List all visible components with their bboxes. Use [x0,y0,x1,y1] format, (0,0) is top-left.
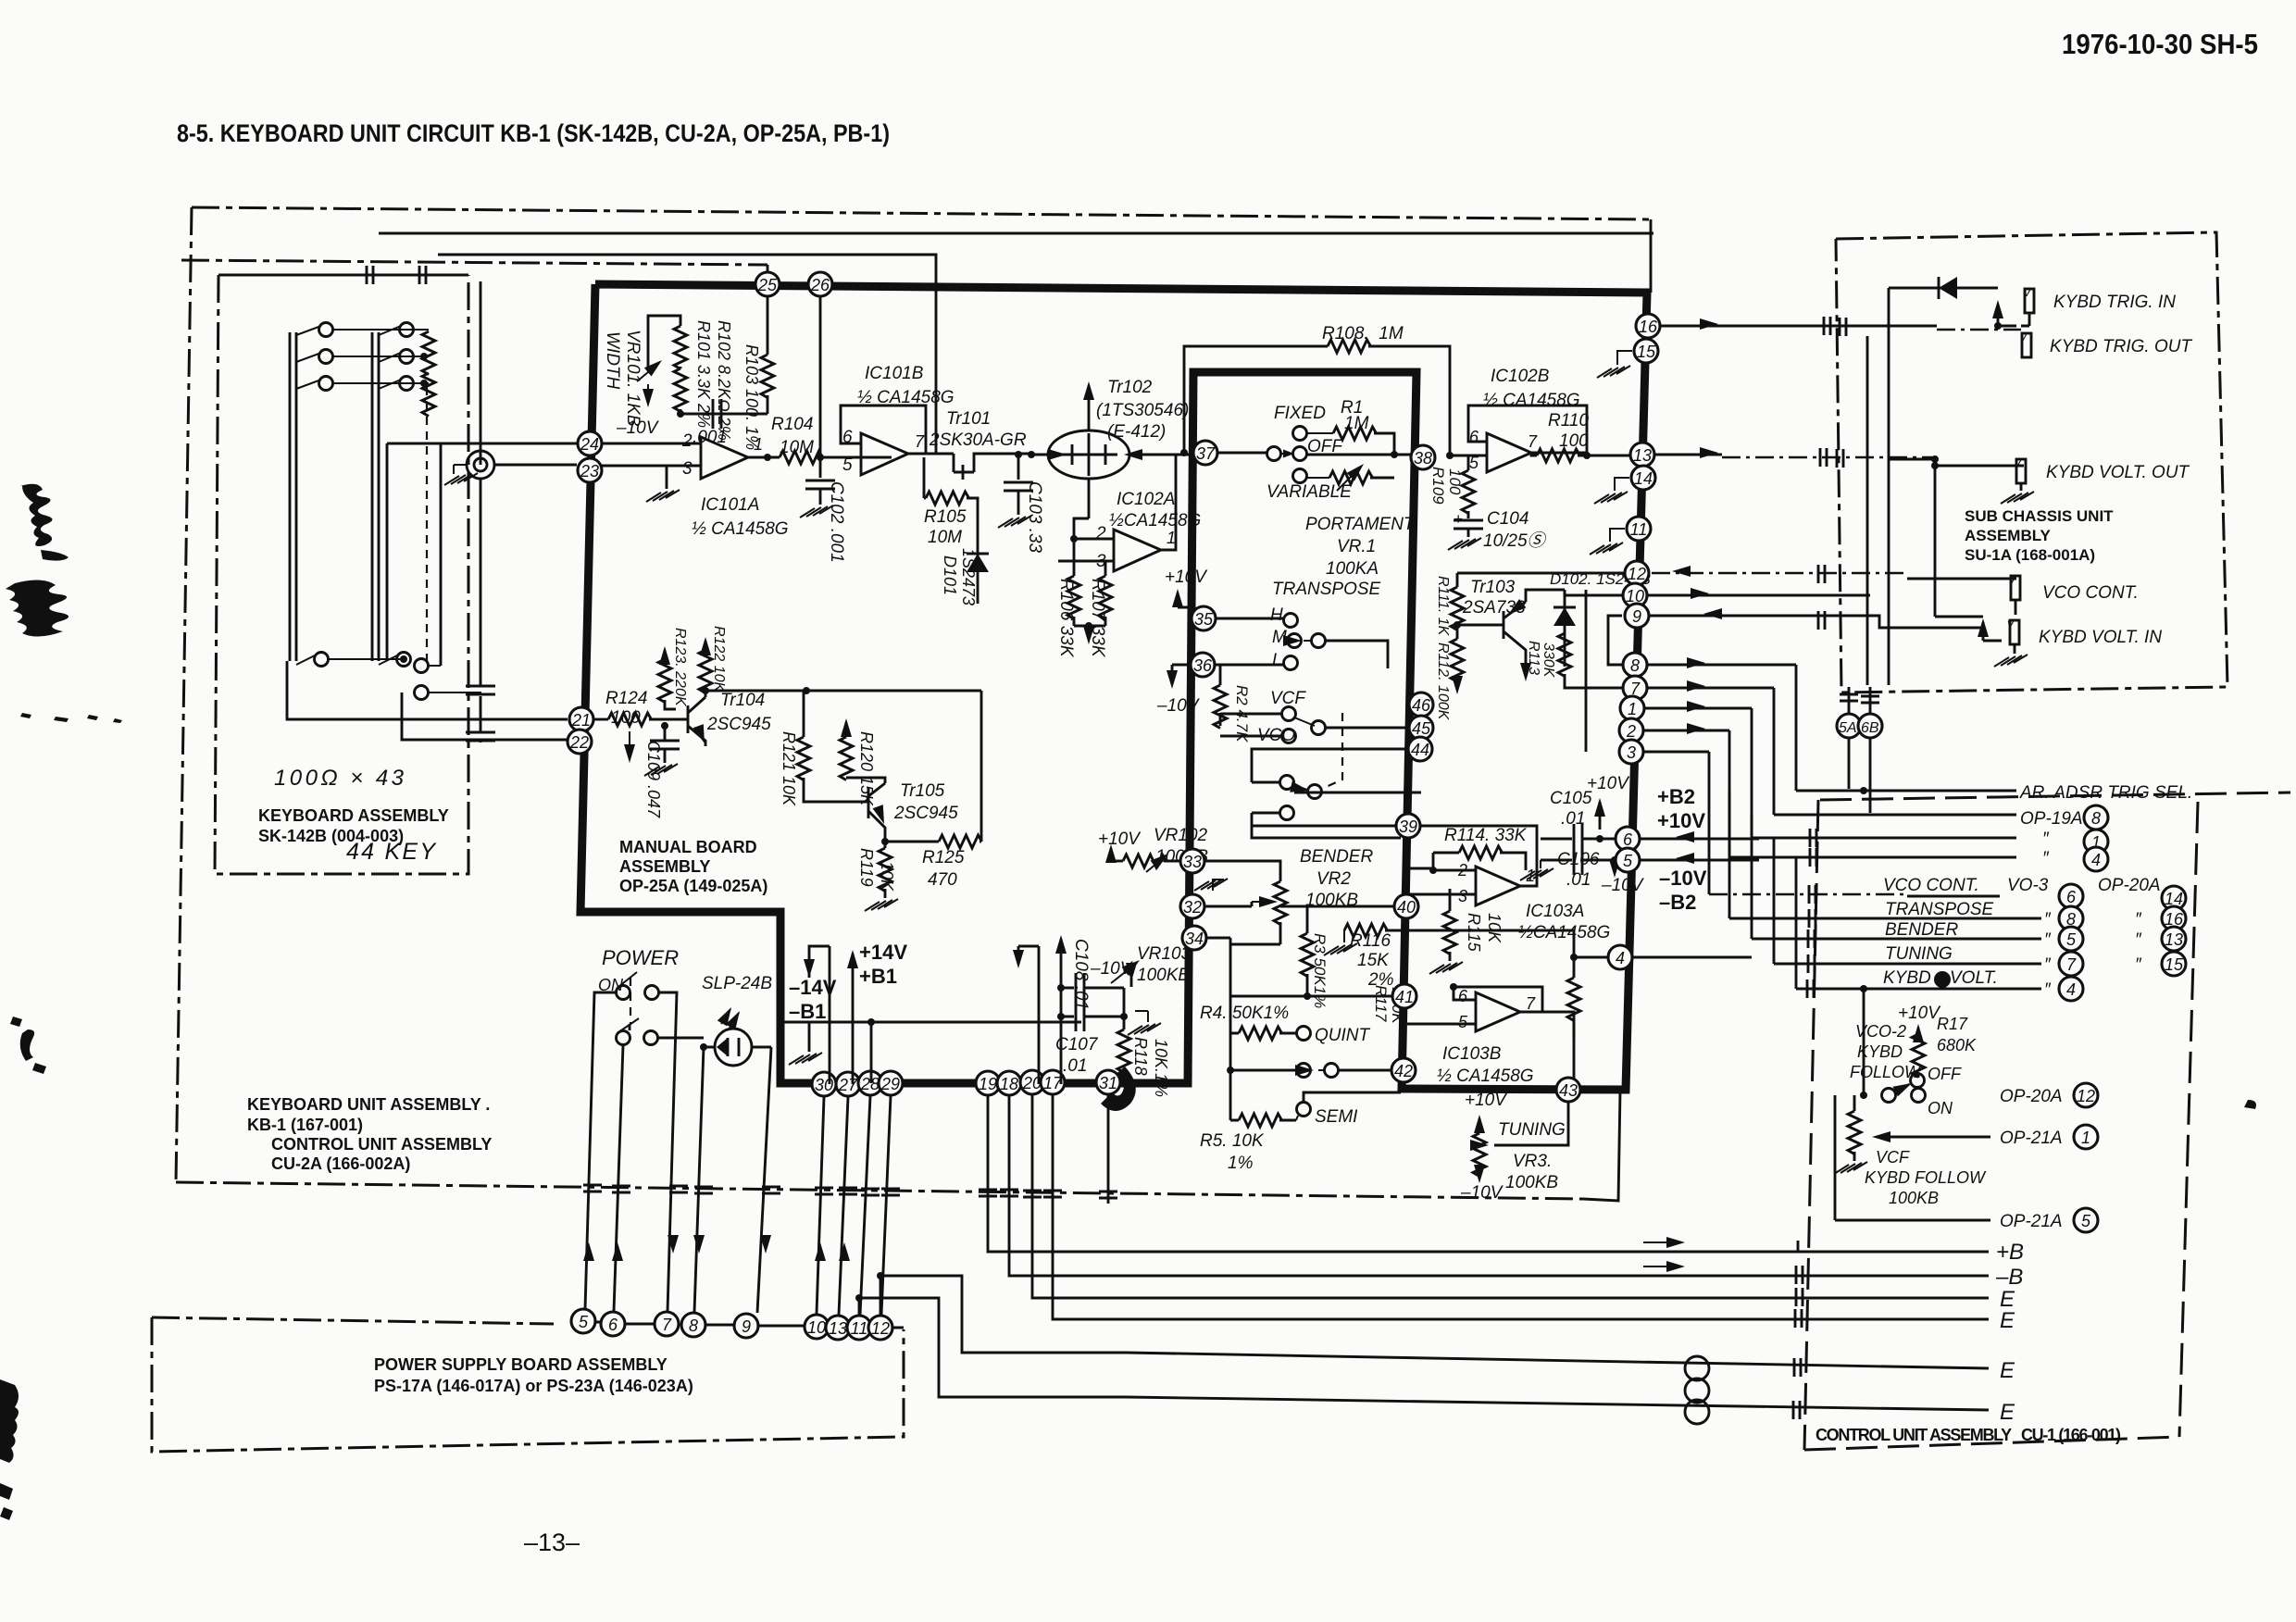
switch contacts [617,986,630,1000]
svg-text:14: 14 [1634,469,1653,488]
svg-text:SUB CHASSIS UNIT: SUB CHASSIS UNIT [1965,507,2114,525]
wire [428,666,481,692]
svg-text:7: 7 [2066,955,2077,974]
svg-text:15K: 15K [1357,951,1390,970]
wire [1031,454,1193,456]
wire [829,946,831,1084]
pin 5 [571,1309,595,1333]
svg-text:R118: R118 [1131,1037,1150,1076]
OP-21A 5 row [1835,1219,1990,1222]
key switch 6 [379,380,401,389]
svg-text:VOLT.: VOLT. [1950,968,1998,988]
wire [1060,988,1063,1017]
wire [977,589,980,604]
wire [1983,640,2002,643]
ground at R118 top right [1147,1011,1149,1022]
svg-text:45: 45 [1412,719,1431,738]
svg-text:TRANSPOSE: TRANSPOSE [1885,900,1994,919]
junction [1611,856,1618,864]
circled terminal [467,451,494,479]
wire [1088,626,1091,639]
wire [657,1037,704,1040]
svg-text:1976-10-30 SH-5: 1976-10-30 SH-5 [2062,28,2258,60]
wire [1126,1397,1989,1410]
wire 4 row [1607,956,1752,959]
resistor [1274,881,1287,925]
wire [1456,680,1459,689]
VR101 pot arrow [637,363,659,381]
junction [867,1018,875,1026]
resistor [1239,1114,1282,1127]
svg-text:½CA1458G: ½CA1458G [1518,923,1610,942]
svg-text:5: 5 [1623,852,1633,870]
svg-text:R124: R124 [605,689,647,708]
junction [1931,455,1939,463]
vertical kb line [480,281,482,465]
svg-text:Tr103: Tr103 [1470,578,1516,597]
keyboard bus bar 2 [372,332,379,661]
bottom key switch 2 [379,655,397,665]
svg-text:39: 39 [1399,817,1417,836]
svg-text:–10V: –10V [1156,696,1201,716]
resistor chain on bus 2 [422,331,435,375]
power supply board dash-dot box [152,1317,554,1324]
rails [1126,1251,1989,1254]
wire [1410,826,1537,886]
capacitor [1076,1002,1084,1031]
svg-text:28: 28 [860,1075,880,1093]
svg-text:8: 8 [2091,809,2101,828]
svg-text:31: 31 [1099,1074,1117,1092]
junction [1454,621,1461,629]
wire [820,456,892,459]
pin 27 [836,1072,860,1096]
wire [1614,860,1616,872]
pin 13 [826,1316,850,1340]
pin 11 [847,1316,871,1340]
arrow [659,646,670,665]
svg-text:7: 7 [662,1316,672,1334]
wire [688,697,705,746]
svg-text:10/25Ⓢ: 10/25Ⓢ [1483,530,1548,551]
svg-text:3: 3 [682,459,693,479]
arrows on risers [583,1242,594,1261]
svg-text:6B: 6B [1861,720,1879,736]
wire [2020,483,2023,491]
pin 20 [1020,1070,1044,1094]
wire [1017,455,1020,480]
switch contact [1293,469,1307,483]
svg-text:5: 5 [2066,930,2077,949]
wire [1073,539,1076,626]
Tr102 bottom stub to IC102A [1088,479,1091,518]
wire [705,691,707,697]
svg-text:BENDER: BENDER [1300,847,1373,867]
wire 9 row [1650,616,1983,628]
junction [855,1294,863,1302]
key switch 3 [296,380,321,389]
pin 5 [2059,927,2083,951]
wire [1343,930,1345,942]
connector crossing marks [1824,317,1830,335]
junction [1931,462,1939,469]
svg-text:13: 13 [2165,930,2183,949]
svg-text:22: 22 [569,733,589,752]
svg-text:1: 1 [1628,700,1637,718]
svg-text:R114. 33K: R114. 33K [1444,826,1528,845]
svg-text:–10V: –10V [1601,876,1645,895]
svg-text:VCF: VCF [1270,689,1306,708]
svg-text:SEMI: SEMI [1315,1107,1358,1127]
arrow [804,959,815,978]
wire [1074,561,1105,626]
svg-text:H: H [1270,605,1283,625]
arrow [1687,723,1705,734]
svg-text:ON: ON [1928,1099,1953,1117]
svg-text:VR102: VR102 [1154,826,1208,845]
pin 33 [1180,849,1204,873]
resistor [1117,1029,1130,1073]
pin 1 [2084,830,2108,854]
switch contact [1297,1027,1311,1041]
op-amp IC102A [1114,530,1161,571]
svg-text:KYBD: KYBD [1857,1042,1903,1061]
svg-text:ASSEMBLY: ASSEMBLY [1965,527,2052,544]
arrow [1520,663,1531,681]
wire [694,1047,771,1313]
svg-text:AR. ADSR TRIG SEL.: AR. ADSR TRIG SEL. [2019,783,2192,803]
pin 5 [1616,848,1640,872]
resistor [926,492,969,505]
wire 39 row [1252,825,1401,828]
svg-text:330K: 330K [1541,643,1556,679]
wire [1206,618,1283,620]
pin 28 [858,1071,882,1095]
capacitor [650,741,680,749]
wire terminal to pins [494,464,577,467]
wire 16 row [1653,325,1937,328]
op-amp IC101B [861,433,908,475]
pin 32 [1180,894,1204,918]
arrow [1687,701,1705,712]
svg-text:OP-19A: OP-19A [2020,809,2083,829]
wire [1252,901,1274,903]
wire [1126,1353,1989,1368]
wire [2021,313,2029,326]
wire [1894,1084,1909,1092]
wire [1325,641,1388,668]
wire [1192,861,1280,881]
svg-text:–10V: –10V [1460,1183,1504,1203]
op-amp IC103B [1476,992,1520,1031]
junction [1180,449,1188,456]
wire [1318,1069,1324,1071]
wire [809,946,830,978]
pin 4 [1608,945,1632,969]
svg-text:1S2473: 1S2473 [959,548,978,605]
resistor [1462,470,1475,514]
wire node vertical [1585,590,1588,752]
wire [846,778,885,842]
pin 13 [1630,443,1654,467]
arrow [693,724,710,745]
svg-text:½ CA1458G: ½ CA1458G [692,519,789,539]
svg-text:6: 6 [608,1316,618,1334]
three connector bubbles [1685,1356,1709,1380]
resistor [699,650,712,693]
wire [1111,860,1123,863]
svg-text:SLP-24B: SLP-24B [702,974,772,993]
svg-text:–B1: –B1 [789,1000,826,1023]
svg-text:POWER: POWER [602,946,679,969]
resistor [840,737,853,780]
connector crossing marks [1818,611,1825,630]
wire [870,1022,873,1083]
svg-text:11: 11 [1630,520,1648,539]
junction [700,1043,707,1051]
svg-text:R103 100. 1%: R103 100. 1% [742,344,761,450]
ground at 11 [1610,529,1625,542]
pin 14 [1631,466,1655,490]
svg-text:CONTROL UNIT ASSEMBLY: CONTROL UNIT ASSEMBLY [271,1135,492,1154]
capacitor [1574,845,1582,875]
pin 15 [2162,952,2186,976]
step wire from pin 11 [859,1298,1126,1397]
wire [721,1009,739,1028]
svg-text:(1TS30546): (1TS30546) [1096,401,1189,420]
resistor [1099,576,1112,619]
wire [1252,749,1421,838]
op-amp IC102B [1487,433,1531,472]
wire [980,691,983,842]
svg-text:C108 .01: C108 .01 [1071,939,1091,1010]
quote 1 row [1752,837,2016,840]
svg-text:13: 13 [829,1319,847,1338]
pin 12 [1625,561,1649,585]
connector crossing marks [1794,1358,1801,1377]
svg-text:VCF: VCF [1876,1148,1910,1167]
svg-text:POWER SUPPLY BOARD ASSEMBLY: POWER SUPPLY BOARD ASSEMBLY [374,1355,668,1374]
wire [1449,889,1452,961]
connector crossing marks [1796,1288,1803,1306]
svg-text:37: 37 [1196,444,1216,463]
pin 29 [879,1071,903,1095]
arrow [1672,566,1691,577]
key switch 1 [296,326,321,335]
wire 8 row [1648,664,1796,667]
svg-text:100KA: 100KA [1326,559,1379,579]
resistor [1451,587,1464,630]
selector contacts middle [1297,1064,1311,1078]
pot VCF KYBD FOLLOW [1848,1111,1861,1154]
svg-text:R121 10K: R121 10K [780,731,798,806]
wire 10 [1565,590,1635,595]
diode D101 [977,518,980,589]
wire [1797,1241,1800,1252]
junction [1450,983,1457,991]
wire [1796,988,2041,991]
svg-text:5: 5 [842,455,853,475]
pin 16 [2162,906,2186,930]
wire [665,691,981,709]
wire [387,443,441,666]
wire [845,722,848,737]
pin 13 [2162,927,2186,951]
ground at terminal [454,465,467,474]
svg-text:KYBD FOLLOW: KYBD FOLLOW [1865,1168,1987,1187]
resistor [1912,1034,1925,1078]
junction [877,1272,884,1279]
resistor [1344,924,1388,937]
svg-text:–10V: –10V [616,418,660,438]
wire [1467,529,1470,537]
pin 35 [1192,606,1216,630]
svg-text:TUNING: TUNING [1498,1120,1566,1140]
capacitor [1574,824,1582,854]
wire [1164,860,1188,863]
assembly boundary [152,1317,904,1452]
svg-text:2SC945: 2SC945 [706,715,771,734]
common/ON contacts [1882,1089,1896,1103]
capacitor [1454,520,1483,529]
riser 17 down to rail [1053,1095,1126,1319]
resistor [1451,639,1464,682]
arrows on +B -B [1666,1237,1685,1248]
svg-text:VCO CONT.: VCO CONT. [2042,583,2139,603]
wire [614,1045,623,1311]
resistor [1459,846,1503,859]
wire [1907,578,2016,580]
riser 19 down to rail [988,1096,1126,1252]
svg-text:6: 6 [1458,987,1468,1005]
svg-text:–13–: –13– [524,1528,580,1556]
ground stub [808,1022,811,1052]
svg-text:42: 42 [1394,1062,1413,1080]
svg-text:680K: 680K [1937,1036,1977,1054]
switch contact [1282,707,1296,721]
resistor [797,737,810,780]
wire [1729,917,2041,920]
wire [1599,802,1602,830]
junction [677,410,684,418]
capacitor C103 [1015,451,1022,458]
wire [1853,1095,1856,1161]
svg-text:R109: R109 [1429,467,1447,505]
wire [1479,1118,1481,1133]
pin 44 [1408,737,1432,761]
wire [1230,922,1280,944]
wire 5 row [1616,859,1759,862]
svg-text:BENDER: BENDER [1885,920,1958,940]
pin 30 [812,1072,836,1096]
wire [1526,590,1565,602]
wire [1292,785,1307,790]
resistor [1328,340,1371,353]
wire 12 left [1457,572,1626,575]
wire [1457,624,1504,627]
riser 20 down to rail [1032,1095,1126,1298]
pin 34 [1182,926,1206,950]
svg-text:SU-1A (168-001A): SU-1A (168-001A) [1965,546,2095,564]
capacitor [1076,973,1084,1003]
svg-text:27: 27 [838,1076,858,1094]
wire [665,650,672,709]
wire [783,1021,809,1024]
riser 31 down [1107,1095,1110,1204]
wire [1834,1095,1837,1220]
pin 12 [868,1316,892,1340]
svg-text:R101 3.3K 2%: R101 3.3K 2% [694,320,713,428]
resistor R108 feedback over box [1184,346,1450,455]
wire [1110,848,1113,861]
pin 41 [1392,984,1416,1008]
wire [1504,602,1526,676]
wire [1060,1017,1063,1084]
kb box top ticks [367,266,373,284]
resistor [1333,427,1377,440]
wire [1306,906,1309,996]
wire [1774,963,2041,966]
wire [1074,518,1114,539]
arrow [700,637,711,655]
wire 9 to 8 bracket [1608,616,1622,665]
resistor [1239,1027,1282,1040]
pin 9 [1625,604,1649,628]
dashed divider [426,387,428,661]
junction [1860,1092,1867,1099]
wire [1060,939,1063,952]
wire [1468,405,1587,453]
connector crossing marks [1818,565,1825,583]
svg-text:½CA1458G: ½CA1458G [1109,511,1201,530]
pin 25 [755,272,780,296]
svg-text:MANUAL BOARD: MANUAL BOARD [619,838,757,856]
junction [1860,787,1867,794]
lower selector contacts [1280,776,1294,790]
svg-text:KYBD VOLT. IN: KYBD VOLT. IN [2039,628,2162,647]
junction [1085,622,1092,630]
wire 10 row [1648,594,1870,597]
wire [1564,590,1566,667]
connector crossing marks [815,1188,833,1194]
dashed link to lower switch [1322,713,1342,789]
keyboard assembly box [218,274,468,277]
wire [1192,902,1252,906]
ground at 15 [1617,351,1632,365]
svg-text:26: 26 [810,276,830,294]
wire [1494,1103,1568,1145]
svg-text:VCO-2: VCO-2 [1855,1022,1906,1041]
wire 41 row [1230,995,1401,998]
svg-text:PORTAMENT: PORTAMENT [1305,515,1416,534]
ground stub at 32 [1213,880,1224,891]
pin 3 [1619,740,1643,764]
wire [1917,1075,1920,1078]
pin 6B [1858,714,1882,738]
arrow [1703,608,1722,619]
pin 46 [1409,692,1433,717]
pin 11 [1627,517,1651,541]
svg-text:+14V: +14V [859,941,907,964]
pin 42 [1391,1058,1416,1082]
pin 5 [2074,1208,2098,1232]
svg-text:4: 4 [2066,980,2076,999]
wire kb out 2 [438,255,936,453]
pin 7 [1623,676,1647,700]
wire [1296,1116,1298,1120]
arrow [717,1004,736,1026]
junction [1934,971,1951,988]
